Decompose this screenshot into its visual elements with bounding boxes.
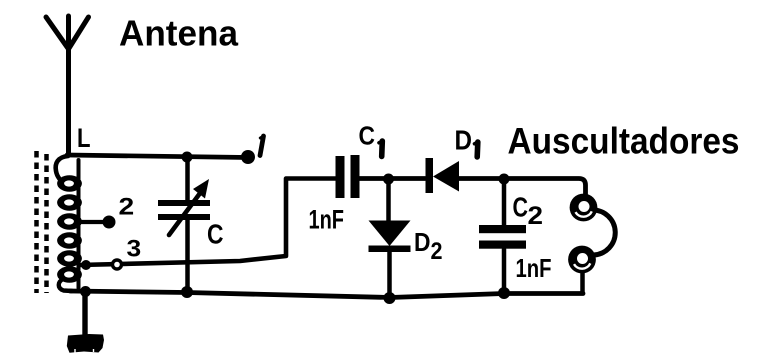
svg-text:D: D (455, 125, 473, 156)
svg-text:2: 2 (119, 194, 135, 221)
svg-text:L: L (77, 123, 91, 153)
svg-text:3: 3 (127, 236, 142, 263)
svg-text:C: C (513, 192, 529, 223)
svg-text:Auscultadores: Auscultadores (508, 120, 740, 162)
svg-text:2: 2 (528, 202, 544, 230)
svg-text:Antena: Antena (119, 13, 239, 54)
svg-text:D: D (414, 229, 431, 257)
svg-text:C: C (359, 121, 376, 151)
svg-text:1nF: 1nF (309, 205, 345, 235)
svg-text:2: 2 (431, 238, 443, 265)
svg-text:1nF: 1nF (516, 253, 552, 283)
svg-text:C: C (207, 219, 224, 250)
